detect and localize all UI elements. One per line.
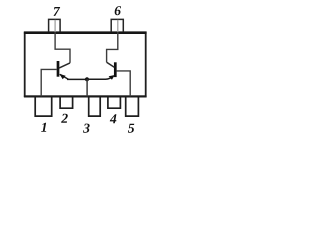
wire Q2 collector to pin 6: [107, 32, 118, 62]
pin 2 tab: [60, 97, 73, 108]
wire common emitter left segment: [67, 78, 87, 80]
wire Q1 collector to pin 7: [55, 32, 70, 63]
pin 1 tab: [35, 97, 52, 116]
wire Q1 base to pin 1: [41, 69, 57, 96]
label 4: [110, 114, 117, 123]
label 3: [83, 124, 90, 133]
package body: [24, 33, 147, 97]
pin 6 tab: [111, 19, 123, 32]
label 1: [41, 123, 46, 132]
transistor Q1 base bar: [57, 61, 60, 77]
pin 7 lead wire: [54, 20, 56, 32]
transistor Q2 collector diagonal: [107, 62, 115, 67]
transistor Q2 emitter arrow: [109, 75, 115, 80]
pin 3 tab: [89, 97, 101, 116]
label 7: [53, 7, 60, 16]
wire emitter node to pin 3: [86, 79, 88, 96]
pin 5 tab: [126, 97, 139, 116]
label 2: [61, 114, 68, 123]
pin 6 lead wire: [117, 20, 119, 32]
pin 7 tab: [49, 19, 61, 32]
label 6: [115, 6, 121, 15]
transistor Q1 emitter diagonal: [60, 74, 69, 79]
junction dot: [85, 77, 89, 81]
pin 4 tab: [108, 97, 121, 108]
wire common emitter right segment: [87, 76, 113, 79]
transistor Q2 base bar: [114, 62, 117, 77]
transistor Q1 collector diagonal: [59, 63, 70, 68]
wire Q2 base to pin 5: [117, 71, 131, 97]
label 5: [128, 124, 134, 133]
transistor Q1 emitter arrow: [59, 74, 65, 79]
